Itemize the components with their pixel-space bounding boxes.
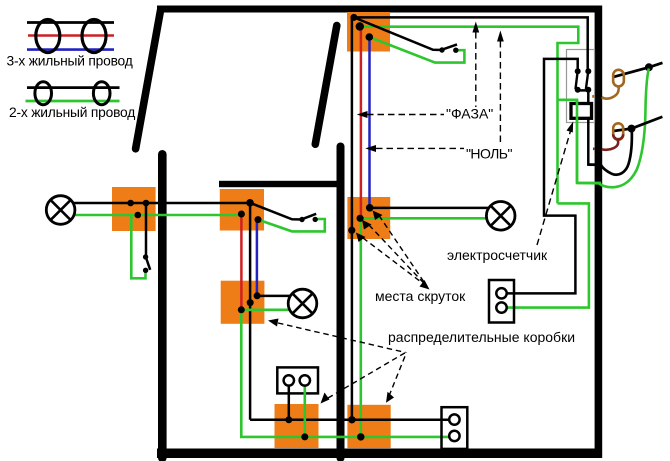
wire: black U loop through wall bbox=[588, 130, 632, 175]
node J6 dots bbox=[285, 416, 292, 423]
node: service tap 1 bbox=[645, 63, 653, 71]
node J1 dots bbox=[350, 14, 357, 21]
wire: black vertical J1-J2-J7 bbox=[351, 17, 354, 419]
wall: bottom exterior bbox=[157, 449, 602, 459]
meter enclosure outline bbox=[567, 50, 595, 123]
wire: switch S3 return (green) bbox=[258, 219, 325, 231]
junction box J6 (bottom-left room lower) bbox=[275, 404, 319, 448]
lamp L1 bbox=[46, 196, 75, 225]
socket X2 (right room upper) bbox=[489, 280, 514, 323]
wall: interior horizontal bbox=[219, 181, 338, 187]
wire: green through meter to wall exit bbox=[577, 100, 601, 183]
junction box J4 (outside left wall) bbox=[112, 187, 156, 231]
node J2 dots bbox=[366, 204, 374, 212]
node J7 dots bbox=[348, 416, 355, 423]
junction box J5 (bottom-left room upper) bbox=[221, 281, 265, 324]
wire: red vertical J1-J2 bbox=[360, 27, 363, 219]
wire: red vertical J3-J5 bbox=[240, 214, 243, 310]
svg-text:распределительные коробки: распределительные коробки bbox=[388, 329, 575, 345]
wire: curl 2 tail stub inside wall bbox=[593, 148, 594, 151]
wire: black J2 to lamp L3 bbox=[370, 207, 488, 210]
legend 2-core cable symbol bbox=[26, 82, 120, 105]
electric meter M bbox=[571, 104, 592, 119]
wire: phase black from J1 to breaker (top run) bbox=[354, 17, 588, 71]
node J5 dots bbox=[238, 306, 245, 313]
wire: green vertical J5 down and bottom run to socket X3 bbox=[241, 310, 449, 437]
wire: blue vertical J3-J5 bbox=[256, 220, 259, 296]
wire: black drop socket X1 bbox=[288, 385, 291, 420]
wire: meter drop and wall exit bbox=[588, 90, 601, 164]
wire: curl 1 tail stub inside wall bbox=[592, 95, 594, 98]
wall: top-left diagonal bbox=[136, 11, 161, 149]
wire: black wire B meter to right room bbox=[507, 59, 578, 294]
junction box J7 (bottom-middle) bbox=[347, 405, 390, 448]
wire: black lamp L1 to J3 through J4 bbox=[74, 202, 250, 205]
wire: breaker bottoms link bbox=[578, 89, 589, 92]
svg-text:электросчетчик: электросчетчик bbox=[447, 247, 548, 263]
wire: black bottom run J5-J6-J7 to socket X3 bbox=[250, 419, 449, 422]
svg-text:"ФАЗА": "ФАЗА" bbox=[446, 106, 493, 122]
wire: switch S1 feed (black) bbox=[354, 17, 442, 50]
switch S1 blade bbox=[443, 44, 457, 49]
overhead service line 2 (black) bbox=[613, 117, 662, 131]
wall: right exterior bbox=[595, 6, 603, 459]
overhead service line 1 (black) bbox=[614, 63, 663, 77]
node: service tap 2 bbox=[628, 125, 636, 133]
switch S2 blade bbox=[146, 259, 150, 270]
wire: outside green drop (neutral) bbox=[577, 69, 649, 188]
junction box J2 (middle) bbox=[347, 197, 390, 239]
socket X3 (right room lower) bbox=[442, 407, 468, 449]
wall: top exterior bbox=[157, 6, 602, 13]
wire: black J5 to lamp L2 bbox=[257, 295, 290, 298]
wall: left exterior bbox=[158, 154, 167, 458]
socket X1 (bottom-left room) bbox=[277, 367, 318, 393]
wire: green lamp L1 to J3 through J4 bbox=[74, 214, 241, 217]
wire: curl 1 tail through wall bbox=[602, 86, 619, 99]
switch S1 contact dots bbox=[439, 47, 444, 52]
wire: green right-room run to socket X2 bbox=[507, 203, 589, 307]
wire: black vertical J3-J5-J6 run bbox=[249, 203, 252, 420]
wall: top-middle diagonal bbox=[315, 26, 337, 145]
junction box J3 (below interior wall) bbox=[220, 189, 264, 231]
lamp L3 bbox=[486, 202, 515, 231]
wire: switch S1 return (green) bbox=[369, 37, 464, 63]
wire: green J5 to lamp L2 bbox=[241, 308, 290, 311]
breaker Q1 (left) bbox=[575, 68, 581, 74]
wire: blue vertical J1-J2 bbox=[368, 37, 371, 208]
node J3 dots bbox=[246, 199, 254, 207]
switch S3 blade bbox=[303, 214, 316, 219]
wire: green switch S2 loop bbox=[131, 215, 145, 278]
svg-text:места скруток: места скруток bbox=[375, 288, 466, 304]
svg-text:3-х жильный провод: 3-х жильный провод bbox=[7, 54, 133, 69]
wall: middle vertical (between rooms) bbox=[337, 147, 345, 459]
wire: curl 2 tail dark red through wall bbox=[602, 140, 618, 150]
wire: green J2 to lamp L3 bbox=[360, 217, 486, 220]
insulator curl 2 (brown) bbox=[613, 123, 623, 139]
wire: green G2 meter to wall crossing bbox=[558, 100, 578, 183]
wire: green drop socket X1 bbox=[303, 385, 306, 437]
wire: neutral green from J1 to meter area bbox=[360, 27, 579, 204]
wire: green vertical J2-J7 bbox=[359, 218, 362, 437]
insulator curl 2 lower half (dark red) bbox=[613, 134, 623, 139]
switch S2 contact dots bbox=[143, 254, 148, 259]
wire: black switch S2 drop bbox=[145, 203, 148, 257]
lamp L2 bbox=[288, 289, 317, 318]
switch S3 contact dots bbox=[299, 217, 304, 222]
insulator curl 1 (brown) bbox=[613, 70, 624, 87]
junction box J1 (top) bbox=[347, 12, 390, 52]
wire: switch S3 feed (black) from J3 bbox=[250, 203, 302, 220]
node J4 dots bbox=[127, 200, 134, 207]
svg-text:"НОЛЬ": "НОЛЬ" bbox=[466, 145, 512, 161]
legend 3-core cable symbol bbox=[27, 20, 114, 53]
breaker Q2 (right) bbox=[585, 68, 591, 74]
svg-text:2-х жильный провод: 2-х жильный провод bbox=[9, 105, 135, 120]
